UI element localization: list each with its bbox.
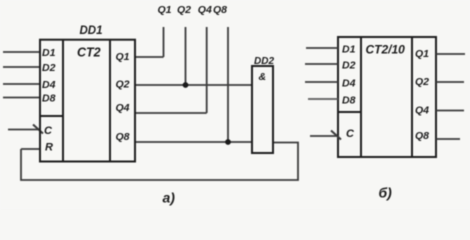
svg-text:D1: D1 (342, 44, 356, 56)
svg-text:Q2: Q2 (116, 79, 130, 91)
svg-text:D8: D8 (42, 93, 56, 105)
svg-text:а): а) (163, 190, 176, 206)
svg-text:CT2: CT2 (77, 46, 101, 60)
svg-text:DD2: DD2 (254, 56, 274, 67)
svg-text:Q1: Q1 (415, 48, 429, 60)
svg-text:Q8: Q8 (116, 131, 130, 143)
svg-text:D4: D4 (42, 79, 56, 91)
svg-text:C: C (44, 125, 53, 137)
svg-text:D2: D2 (42, 62, 56, 74)
svg-text:Q1: Q1 (158, 4, 172, 16)
svg-text:C: C (346, 128, 355, 140)
svg-text:Q2: Q2 (177, 4, 191, 16)
svg-text:D8: D8 (342, 95, 356, 107)
svg-text:Q4: Q4 (198, 4, 212, 16)
svg-text:&: & (259, 71, 267, 83)
svg-text:Q4: Q4 (116, 102, 130, 114)
svg-text:D2: D2 (342, 60, 356, 72)
svg-text:DD1: DD1 (80, 25, 103, 37)
svg-text:Q2: Q2 (415, 76, 429, 88)
svg-text:D1: D1 (42, 47, 56, 59)
svg-text:Q4: Q4 (415, 104, 429, 116)
svg-text:б): б) (379, 185, 393, 201)
svg-text:R: R (45, 142, 53, 154)
svg-text:Q8: Q8 (213, 4, 227, 16)
svg-text:Q8: Q8 (415, 130, 429, 142)
svg-text:CT2/10: CT2/10 (366, 43, 406, 57)
svg-text:Q1: Q1 (116, 51, 130, 63)
svg-text:D4: D4 (342, 78, 356, 90)
